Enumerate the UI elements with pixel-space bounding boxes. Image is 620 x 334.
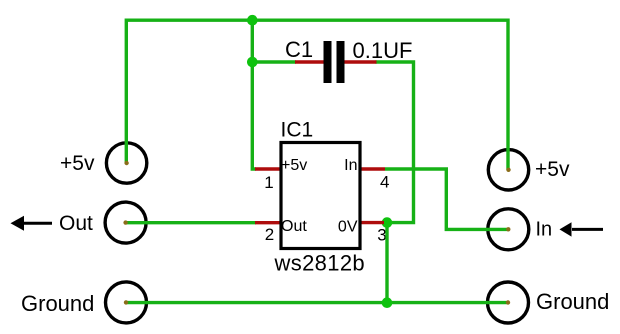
terminal pad +5v right bbox=[488, 150, 528, 190]
pad center dot In right bbox=[506, 227, 510, 231]
pin 4 stub bbox=[360, 167, 385, 170]
terminal pad +5v left bbox=[106, 143, 146, 183]
IC U1 body bbox=[281, 143, 360, 249]
junction capacitor tap bbox=[247, 57, 258, 68]
pad center dot +5v left bbox=[124, 161, 128, 165]
arrow In (right, pointing left) bbox=[560, 222, 604, 236]
svg-text:IC1: IC1 bbox=[281, 118, 314, 141]
svg-text:ws2812b: ws2812b bbox=[274, 251, 366, 276]
pin 1 stub bbox=[255, 167, 281, 170]
pad center dot Out left bbox=[123, 220, 127, 224]
junction top rail bbox=[247, 15, 258, 26]
terminal pad In right bbox=[488, 209, 529, 250]
svg-text:0.1UF: 0.1UF bbox=[353, 38, 413, 63]
wire capacitor right lead to 0V bbox=[376, 62, 414, 223]
junction ground rail bbox=[382, 297, 393, 308]
svg-text:1: 1 bbox=[264, 173, 273, 192]
capacitor C1 right lead (red) bbox=[344, 60, 377, 63]
pin 2 stub bbox=[255, 221, 281, 224]
svg-text:Ground: Ground bbox=[536, 289, 609, 314]
wire pin 3 to ground rail bbox=[384, 223, 387, 303]
svg-text:4: 4 bbox=[380, 173, 389, 192]
wire top +5v rail bbox=[126, 20, 508, 170]
pin 3 stub bbox=[360, 221, 384, 224]
pad center dot Ground left bbox=[124, 300, 128, 304]
svg-text:Ground: Ground bbox=[21, 291, 94, 316]
wire capacitor left lead bbox=[252, 60, 296, 63]
svg-text:In: In bbox=[344, 157, 357, 174]
junction pin 3 node bbox=[382, 217, 393, 228]
svg-text:+5v: +5v bbox=[281, 157, 307, 174]
svg-text:+5v: +5v bbox=[535, 158, 570, 181]
wire pin 4 to In pad bbox=[385, 169, 508, 229]
svg-text:Out: Out bbox=[281, 218, 307, 235]
pad center dot Ground right bbox=[506, 300, 510, 304]
wire Out to pin 2 bbox=[126, 221, 256, 224]
svg-text:In: In bbox=[536, 218, 553, 240]
svg-text:C1: C1 bbox=[285, 37, 313, 62]
terminal pad Ground left bbox=[106, 282, 147, 323]
capacitor C1 left lead (red) bbox=[295, 60, 324, 63]
capacitor C1 left plate bbox=[324, 41, 332, 83]
svg-text:+5v: +5v bbox=[60, 152, 95, 175]
pad center dot +5v right bbox=[506, 168, 510, 172]
wire +5v drop to pin 1 bbox=[252, 20, 256, 169]
svg-text:Out: Out bbox=[59, 212, 93, 235]
svg-text:0V: 0V bbox=[338, 219, 358, 236]
terminal pad Out left bbox=[105, 202, 146, 243]
capacitor C1 right plate bbox=[337, 41, 345, 83]
wire ground rail bbox=[126, 301, 508, 304]
arrow Out (left, pointing left) bbox=[11, 216, 53, 231]
svg-text:2: 2 bbox=[265, 225, 274, 244]
terminal pad Ground right bbox=[488, 282, 529, 323]
